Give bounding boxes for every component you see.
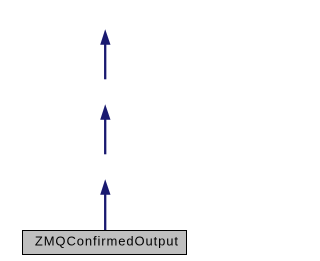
node ZMQConfirmedOutput [23, 231, 187, 255]
wire arrow middle (inheritance edge 2) [100, 104, 110, 154]
wire arrow top (inheritance edge 1) [100, 29, 110, 79]
svg-text:ZMQConfirmedOutput: ZMQConfirmedOutput [35, 233, 179, 248]
wire arrow bottom (inheritance edge 3) [100, 179, 110, 230]
